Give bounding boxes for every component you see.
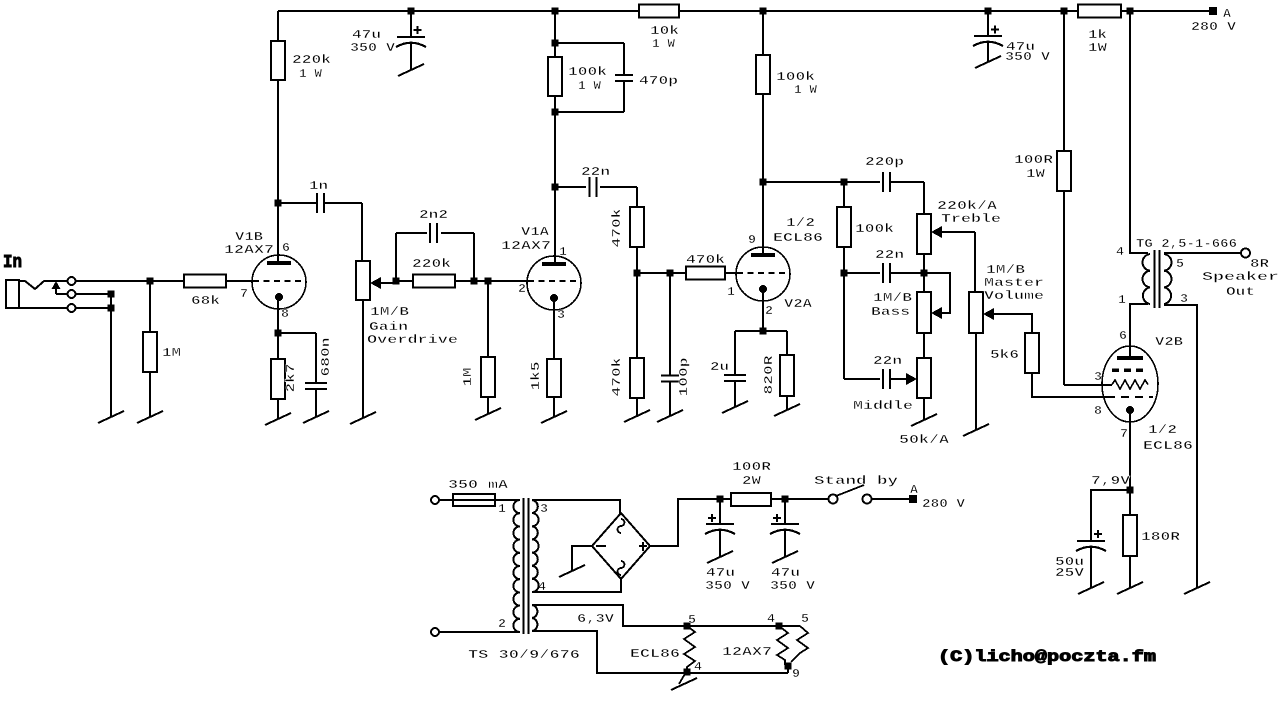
svg-text:4: 4 [767, 612, 775, 626]
svg-text:1W: 1W [1088, 41, 1108, 55]
svg-text:A: A [1223, 7, 1232, 21]
svg-text:820R: 820R [762, 354, 776, 394]
svg-text:5k6: 5k6 [990, 348, 1019, 362]
svg-text:1k5: 1k5 [529, 362, 543, 391]
svg-text:50k/A: 50k/A [899, 433, 950, 447]
svg-text:2: 2 [518, 282, 526, 296]
svg-text:1: 1 [498, 502, 506, 516]
svg-text:ECL86: ECL86 [773, 231, 823, 245]
svg-text:100R: 100R [732, 460, 772, 474]
svg-text:Out: Out [1226, 285, 1255, 299]
svg-text:Gain: Gain [369, 320, 408, 334]
svg-text:7: 7 [1120, 427, 1128, 441]
svg-text:1M/B: 1M/B [370, 305, 409, 319]
svg-text:5: 5 [1176, 257, 1184, 271]
svg-text:7,9V: 7,9V [1091, 474, 1131, 488]
svg-text:470k: 470k [686, 253, 725, 267]
svg-text:1 W: 1 W [299, 67, 323, 81]
svg-text:2k7: 2k7 [284, 364, 298, 393]
svg-text:ECL86: ECL86 [630, 647, 680, 661]
svg-text:1M: 1M [461, 368, 475, 387]
svg-text:3: 3 [557, 308, 565, 322]
svg-text:Speaker: Speaker [1202, 270, 1279, 284]
svg-text:12AX7: 12AX7 [722, 645, 772, 659]
svg-text:22n: 22n [581, 165, 610, 179]
svg-text:Master: Master [984, 276, 1044, 290]
svg-text:100k: 100k [855, 222, 894, 236]
svg-text:47u: 47u [771, 566, 800, 580]
svg-text:4: 4 [1116, 245, 1124, 259]
svg-text:1/2: 1/2 [1148, 423, 1177, 437]
svg-text:TS 30/9/676: TS 30/9/676 [468, 648, 580, 662]
svg-text:47u: 47u [706, 566, 735, 580]
svg-text:1: 1 [1118, 293, 1126, 307]
svg-text:1 W: 1 W [652, 37, 676, 51]
svg-text:6: 6 [1119, 329, 1127, 343]
svg-text:3: 3 [1180, 292, 1188, 306]
svg-text:3: 3 [1094, 370, 1102, 384]
svg-text:470k: 470k [610, 209, 624, 248]
svg-text:1k: 1k [1088, 28, 1107, 42]
svg-text:350 V: 350 V [770, 579, 816, 593]
svg-text:2u: 2u [710, 360, 729, 374]
svg-text:22n: 22n [875, 248, 904, 262]
svg-text:2n2: 2n2 [419, 208, 448, 222]
svg-text:ECL86: ECL86 [1143, 439, 1193, 453]
svg-text:180R: 180R [1141, 530, 1181, 544]
svg-text:100k: 100k [776, 70, 815, 84]
svg-text:8: 8 [281, 307, 289, 321]
svg-text:220k: 220k [412, 257, 451, 271]
svg-text:280 V: 280 V [922, 497, 966, 511]
svg-text:1W: 1W [1026, 167, 1046, 181]
svg-text:Stand by: Stand by [814, 474, 898, 488]
svg-text:5: 5 [801, 612, 809, 626]
svg-text:1M/B: 1M/B [873, 291, 912, 305]
svg-text:V1A: V1A [521, 225, 550, 239]
svg-text:680n: 680n [319, 338, 333, 377]
svg-text:8R: 8R [1250, 257, 1270, 271]
svg-text:3: 3 [540, 502, 548, 516]
svg-text:220p: 220p [865, 155, 904, 169]
svg-text:A: A [910, 483, 919, 497]
svg-text:6: 6 [282, 241, 290, 255]
svg-text:12AX7: 12AX7 [501, 239, 551, 253]
svg-text:9: 9 [748, 233, 756, 247]
svg-text:47u: 47u [352, 28, 381, 42]
svg-text:Bass: Bass [871, 305, 910, 319]
svg-text:1n: 1n [309, 179, 328, 193]
svg-text:1/2: 1/2 [786, 216, 815, 230]
svg-text:10k: 10k [650, 24, 679, 38]
svg-text:350 V: 350 V [350, 41, 396, 55]
svg-text:22n: 22n [873, 354, 902, 368]
svg-text:1: 1 [727, 285, 735, 299]
svg-text:12AX7: 12AX7 [224, 243, 274, 257]
svg-text:220k/A: 220k/A [937, 199, 998, 213]
svg-text:V2B: V2B [1155, 335, 1183, 349]
svg-text:Overdrive: Overdrive [367, 333, 458, 347]
svg-text:280 V: 280 V [1191, 20, 1237, 34]
svg-text:5: 5 [688, 613, 696, 627]
svg-text:1M: 1M [162, 346, 181, 360]
svg-text:470p: 470p [639, 74, 678, 88]
svg-text:4: 4 [694, 660, 702, 674]
svg-text:V1B: V1B [235, 230, 263, 244]
svg-text:1 W: 1 W [794, 83, 818, 97]
svg-text:2W: 2W [742, 474, 762, 488]
svg-text:Treble: Treble [941, 212, 1001, 226]
svg-text:350 V: 350 V [1005, 50, 1051, 64]
svg-text:9: 9 [792, 667, 800, 681]
svg-text:2: 2 [498, 617, 506, 631]
svg-text:100p: 100p [677, 358, 691, 397]
svg-text:Volume: Volume [984, 289, 1044, 303]
svg-text:TG 2,5-1-666: TG 2,5-1-666 [1136, 237, 1237, 251]
svg-text:6,3V: 6,3V [577, 612, 615, 626]
svg-text:(C)licho@poczta.fm: (C)licho@poczta.fm [938, 648, 1157, 666]
svg-text:100k: 100k [568, 65, 607, 79]
svg-text:7: 7 [240, 287, 248, 301]
svg-text:1: 1 [559, 245, 567, 259]
svg-text:470k: 470k [610, 358, 624, 397]
svg-text:68k: 68k [191, 294, 220, 308]
svg-text:V2A: V2A [784, 297, 813, 311]
svg-text:25V: 25V [1055, 566, 1085, 580]
svg-text:In: In [3, 253, 22, 273]
svg-text:Middle: Middle [853, 399, 913, 413]
svg-text:350 mA: 350 mA [448, 478, 509, 492]
svg-text:1 W: 1 W [578, 79, 602, 93]
svg-text:1M/B: 1M/B [986, 263, 1025, 277]
svg-text:100R: 100R [1014, 153, 1054, 167]
svg-text:8: 8 [1094, 404, 1102, 418]
svg-text:220k: 220k [292, 53, 331, 67]
svg-text:2: 2 [765, 304, 773, 318]
svg-text:350 V: 350 V [705, 579, 751, 593]
